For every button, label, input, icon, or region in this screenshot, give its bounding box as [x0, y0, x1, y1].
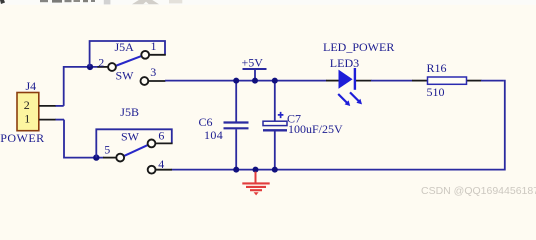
- svg-text:2: 2: [98, 56, 104, 70]
- main +5V row wire: [165, 80, 327, 82]
- power port +5V: [243, 69, 267, 81]
- LED emission arrow 1: [338, 94, 350, 106]
- junction node bottom C6: [233, 167, 239, 173]
- C7 polarity plus sign: [278, 112, 284, 118]
- J5A pin 2 terminal circle: [108, 63, 116, 71]
- J5B pin 4 terminal circle: [148, 166, 156, 174]
- svg-text:1: 1: [151, 39, 157, 53]
- svg-text:C6: C6: [199, 115, 213, 129]
- svg-text:SW: SW: [121, 130, 140, 144]
- svg-text:LED3: LED3: [330, 56, 359, 70]
- svg-text:POWER: POWER: [0, 131, 45, 145]
- J4 pin 1 stub: [39, 119, 64, 121]
- svg-text:+5V: +5V: [242, 56, 264, 70]
- J5A pin 3 terminal circle: [141, 77, 149, 85]
- wire LED to R16: [371, 80, 413, 82]
- svg-text:J5B: J5B: [120, 105, 139, 119]
- resistor R16: [428, 77, 467, 84]
- svg-text:510: 510: [427, 85, 445, 99]
- junction node at J5A input: [87, 64, 93, 70]
- pin line SW pin 1: [150, 54, 166, 56]
- capacitor C7 electrolytic: [263, 81, 287, 170]
- R16 left pin: [412, 80, 428, 82]
- svg-text:100uF/25V: 100uF/25V: [288, 122, 343, 136]
- junction node row top C7: [272, 78, 278, 84]
- J4 pin 2 stub: [39, 105, 64, 107]
- wire riser J4.1 down to J5B row: [64, 120, 104, 158]
- top white strip with cropped text: [0, 0, 536, 5]
- J5B pin 5 terminal circle: [116, 154, 124, 162]
- wire R16 to right rail: [481, 80, 504, 82]
- svg-text:CSDN @QQ1694456187: CSDN @QQ1694456187: [421, 185, 536, 197]
- junction node row top +5V: [252, 78, 258, 84]
- pin line SW pin 3 output: [149, 80, 166, 82]
- svg-text:5: 5: [104, 143, 110, 157]
- svg-text:LED_POWER: LED_POWER: [323, 40, 394, 54]
- wire riser J4.2 to switch row: [64, 67, 98, 106]
- J5B pin 6 terminal circle: [148, 140, 156, 148]
- LED anode pin: [326, 80, 339, 82]
- junction node row top C6: [233, 78, 239, 84]
- LED D3 symbol: [339, 68, 355, 90]
- svg-text:SW: SW: [116, 69, 135, 83]
- junction node at J5B input: [93, 154, 99, 160]
- svg-text:2: 2: [24, 98, 30, 112]
- svg-text:R16: R16: [427, 61, 447, 75]
- R16 right pin: [467, 80, 482, 82]
- J5A pin 1 terminal circle: [141, 51, 149, 59]
- right return rail wire: [172, 80, 505, 170]
- capacitor C6: [224, 81, 249, 170]
- pin line SW pin 6: [156, 142, 173, 144]
- ground earth symbol: [242, 172, 269, 196]
- svg-text:1: 1: [24, 112, 30, 126]
- LED emission arrow 2: [350, 92, 362, 104]
- switch J5A blade: [116, 56, 141, 65]
- switch J5B blade: [124, 145, 147, 156]
- svg-text:3: 3: [150, 65, 156, 79]
- J5A bypass rail wire: [90, 41, 165, 67]
- svg-text:J4: J4: [26, 79, 37, 93]
- LED cathode pin: [355, 80, 372, 82]
- connector J4: [17, 93, 39, 131]
- junction node bottom C7: [272, 167, 278, 173]
- svg-text:6: 6: [158, 129, 164, 143]
- svg-text:104: 104: [204, 128, 223, 142]
- pin line into SW pin 5: [103, 157, 116, 159]
- svg-text:J5A: J5A: [115, 40, 135, 54]
- pin line into SW pin 2: [98, 66, 109, 68]
- junction node bottom ground: [253, 167, 259, 173]
- J5B bypass rail wire: [96, 129, 172, 157]
- pin line SW pin 4: [156, 169, 173, 171]
